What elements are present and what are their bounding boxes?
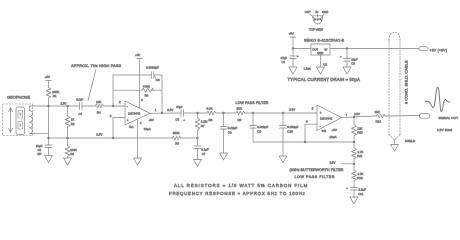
regulator gnd pin bbox=[321, 55, 328, 67]
svg-text:+: + bbox=[320, 111, 322, 115]
resistor R2 1K (geophone damping) bbox=[65, 106, 75, 138]
wire coil bottom to bypass node bbox=[30, 133, 49, 135]
battery connector bbox=[419, 47, 447, 53]
node C3 tap bbox=[346, 47, 348, 49]
svg-text:R12: R12 bbox=[357, 176, 363, 180]
resistor R9 36K bbox=[236, 107, 317, 122]
capacitor C4 0.1uF coupling bbox=[76, 97, 83, 116]
svg-text:20µA: 20µA bbox=[330, 135, 337, 139]
ground below C10 bbox=[279, 156, 287, 163]
capacitor C3 10uF bbox=[340, 49, 358, 68]
node R1 / input rail bbox=[47, 105, 49, 107]
resistor R6 680K bbox=[173, 131, 198, 145]
resistor R4 10K bbox=[82, 100, 125, 114]
geophone coil L1 bbox=[30, 111, 33, 134]
node R9 / C9 bbox=[252, 112, 254, 114]
svg-text:0.0033µF: 0.0033µF bbox=[146, 66, 159, 70]
ground below C3 bbox=[343, 67, 351, 74]
svg-text:C8: C8 bbox=[228, 131, 232, 135]
svg-text:2.5V: 2.5V bbox=[354, 112, 360, 116]
capacitor C6 0.0033uF bbox=[146, 66, 160, 82]
svg-text:R2: R2 bbox=[71, 122, 75, 126]
svg-text:GEOPHONE: GEOPHONE bbox=[7, 95, 30, 100]
svg-text:2.5V: 2.5V bbox=[61, 102, 67, 106]
svg-text:1: 1 bbox=[155, 108, 157, 112]
svg-text:+5V: +5V bbox=[332, 128, 337, 132]
ground below C7 bbox=[194, 160, 202, 167]
svg-text:+: + bbox=[340, 54, 342, 58]
shield wire to ground bbox=[395, 139, 416, 145]
resistor R12 4.7K bbox=[352, 164, 364, 188]
svg-text:-: - bbox=[127, 104, 128, 108]
svg-text:SIGNAL OUT: SIGNAL OUT bbox=[439, 116, 459, 120]
geophone magnet mass bbox=[16, 107, 25, 135]
svg-text:R4: R4 bbox=[97, 110, 101, 114]
svg-text:½B: ½B bbox=[322, 129, 327, 133]
capacitor C2 10uF NP (bias bypass) bbox=[36, 138, 52, 156]
svg-text:C3: C3 bbox=[351, 61, 355, 65]
svg-text:3.9K: 3.9K bbox=[207, 107, 213, 111]
svg-text:2.5V: 2.5V bbox=[330, 161, 336, 165]
2.5V bias rail wire bbox=[49, 137, 173, 139]
svg-text:FREQUENCY RESPONSE ≈ APPROX 5H: FREQUENCY RESPONSE ≈ APPROX 5Hz TO 100Hz bbox=[169, 191, 306, 196]
ground below pin 4 bbox=[134, 158, 142, 165]
svg-text:470K: 470K bbox=[143, 84, 150, 88]
svg-text:(30Hz BUTTERWORTH FILTER: (30Hz BUTTERWORTH FILTER bbox=[290, 168, 344, 172]
2.5V rail label bbox=[96, 133, 102, 137]
hi-pass annotation bbox=[71, 64, 122, 101]
resistor R1 200K bbox=[46, 81, 59, 139]
wire regulator in to battery connector bbox=[330, 48, 419, 50]
svg-text:1.3µA: 1.3µA bbox=[304, 66, 311, 70]
resistor R5 470K bbox=[142, 84, 154, 97]
svg-text:APPROX. 7Hz HIGH PASS: APPROX. 7Hz HIGH PASS bbox=[71, 64, 122, 68]
svg-text:R9: R9 bbox=[238, 118, 242, 122]
current drain note bbox=[288, 77, 361, 82]
resistor R11 4.7K bbox=[352, 142, 364, 164]
svg-text:LMC6442: LMC6442 bbox=[128, 111, 141, 115]
svg-text:C4: C4 bbox=[79, 112, 83, 116]
svg-text:10K: 10K bbox=[375, 110, 380, 114]
svg-text:C1: C1 bbox=[282, 60, 286, 64]
svg-text:R8: R8 bbox=[209, 118, 213, 122]
output bias label bbox=[437, 128, 452, 132]
geophone label bbox=[7, 95, 30, 100]
geophone dashed enclosure bbox=[3, 104, 33, 136]
svg-text:2.5V: 2.5V bbox=[289, 108, 295, 112]
svg-text:+5V: +5V bbox=[45, 75, 50, 79]
signal out connector bbox=[420, 114, 459, 120]
svg-text:2: 2 bbox=[119, 100, 121, 104]
svg-text:LOW PASS FILTER: LOW PASS FILTER bbox=[236, 101, 269, 105]
svg-text:ALL RESISTORS = 1/8 WATT 5% CA: ALL RESISTORS = 1/8 WATT 5% CARBON FILM bbox=[174, 183, 308, 188]
svg-text:IN: IN bbox=[325, 48, 328, 52]
node C2 / 2.5V rail bbox=[47, 137, 49, 139]
svg-text:C5: C5 bbox=[176, 118, 180, 122]
svg-text:0.1µF: 0.1µF bbox=[201, 148, 209, 152]
svg-text:LOW PASS FILTER: LOW PASS FILTER bbox=[295, 175, 336, 179]
node A label 2.5V bbox=[61, 102, 67, 106]
ground below C11 bbox=[350, 197, 358, 204]
shielded cable dashed outline bbox=[389, 33, 400, 141]
svg-text:+: + bbox=[346, 186, 348, 190]
capacitor C9 0.033uF (bootstrap) bbox=[250, 113, 355, 142]
svg-text:R3: R3 bbox=[70, 152, 74, 156]
capacitor C11 4.7uF bbox=[346, 186, 366, 197]
regulator U2 S-812C50 bbox=[311, 44, 330, 55]
svg-text:7: 7 bbox=[346, 113, 348, 117]
svg-text:NP: NP bbox=[38, 152, 42, 156]
svg-text:10K: 10K bbox=[96, 100, 101, 104]
+5V supply symbol for R1 bbox=[45, 75, 52, 81]
svg-text:C10: C10 bbox=[287, 130, 293, 134]
svg-text:+5V: +5V bbox=[289, 32, 294, 36]
resistor R7 2.2M bbox=[195, 113, 208, 138]
ground below regulator bbox=[317, 67, 325, 74]
svg-text:+9V (+9V): +9V (+9V) bbox=[430, 49, 448, 53]
svg-text:LMC6442: LMC6442 bbox=[320, 117, 333, 121]
svg-text:C7: C7 bbox=[202, 152, 206, 156]
svg-text:-: - bbox=[320, 124, 321, 128]
svg-text:+: + bbox=[297, 54, 299, 58]
svg-text:+: + bbox=[183, 118, 185, 122]
svg-text:GND: GND bbox=[322, 10, 328, 14]
svg-text:R1: R1 bbox=[53, 94, 57, 98]
ground below C1 bbox=[289, 67, 297, 74]
cable label bbox=[403, 60, 408, 104]
capacitor C8 0.22uF bbox=[220, 113, 237, 153]
butterworth annotation bbox=[290, 168, 344, 179]
svg-text:R11: R11 bbox=[357, 154, 363, 158]
svg-text:+5V: +5V bbox=[149, 118, 154, 122]
svg-text:2.5V: 2.5V bbox=[167, 108, 173, 112]
regulator quiescent label bbox=[304, 66, 311, 70]
svg-text:IN: IN bbox=[316, 10, 319, 14]
+5V supply to pin 8 bbox=[135, 53, 143, 108]
resistor R8 3.9K bbox=[198, 107, 237, 122]
bottom notes bbox=[169, 183, 308, 196]
svg-text:SHIELD: SHIELD bbox=[405, 139, 415, 143]
svg-text:36K: 36K bbox=[237, 107, 242, 111]
svg-text:+5V: +5V bbox=[135, 53, 140, 57]
svg-text:8: 8 bbox=[141, 98, 143, 102]
ground below C2 bbox=[45, 156, 53, 163]
node output divider top bbox=[353, 116, 355, 118]
svg-text:3: 3 bbox=[110, 114, 112, 118]
svg-text:U2: U2 bbox=[323, 63, 327, 67]
resistor R10 10K bbox=[352, 117, 363, 142]
svg-text:+: + bbox=[127, 118, 129, 122]
svg-text:3 COND. SHLD. CABLE: 3 COND. SHLD. CABLE bbox=[403, 60, 408, 104]
ground below shield bbox=[391, 145, 399, 152]
svg-text:2.5V BIAS: 2.5V BIAS bbox=[437, 128, 452, 132]
svg-text:2.5V: 2.5V bbox=[96, 133, 102, 137]
wire pin 6 feedback bbox=[304, 124, 317, 143]
svg-text:GND: GND bbox=[317, 51, 323, 55]
svg-text:R13: R13 bbox=[376, 119, 382, 123]
svg-text:46µA: 46µA bbox=[144, 127, 151, 131]
feedback loop wires U1A bbox=[113, 75, 162, 113]
node coil top to input rail bbox=[29, 106, 31, 111]
svg-text:SEIKO S-812C50AY-B: SEIKO S-812C50AY-B bbox=[304, 39, 345, 43]
svg-text:TOP VIEW: TOP VIEW bbox=[309, 28, 323, 32]
seismic waveform bbox=[426, 87, 451, 111]
output wire U1B bbox=[342, 112, 375, 118]
svg-text:R5: R5 bbox=[145, 93, 149, 97]
regulator part number bbox=[304, 39, 345, 43]
svg-text:C11: C11 bbox=[358, 192, 364, 196]
svg-text:C6: C6 bbox=[156, 78, 160, 82]
ground below R3 bbox=[64, 158, 72, 165]
node R2 bottom on 2.5V rail bbox=[66, 137, 68, 139]
svg-text:0.1µF: 0.1µF bbox=[76, 97, 83, 101]
svg-text:4: 4 bbox=[140, 121, 142, 125]
node C5 / R7 junction bbox=[196, 112, 198, 114]
svg-text:6: 6 bbox=[306, 120, 308, 124]
resistor R3 200K bbox=[65, 138, 77, 158]
node 2.5V divider tap bbox=[330, 161, 356, 166]
low pass filter label bbox=[236, 101, 269, 105]
svg-text:C9: C9 bbox=[257, 130, 261, 134]
node feedback divider bbox=[353, 141, 355, 143]
pin 4 wire to ground bbox=[138, 119, 142, 158]
ground below C8 bbox=[220, 153, 228, 160]
capacitor C5 47uF bbox=[176, 105, 198, 122]
geophone mass double arrow bbox=[9, 108, 13, 133]
svg-text:R10: R10 bbox=[357, 131, 363, 135]
svg-text:TYPICAL CURRENT DRAIN ≈ 50µA: TYPICAL CURRENT DRAIN ≈ 50µA bbox=[288, 77, 361, 82]
node R2 top bbox=[66, 105, 68, 107]
node feedback tap on pin2 wire bbox=[112, 105, 114, 107]
regulator package top view bbox=[305, 10, 328, 31]
svg-text:47µF: 47µF bbox=[176, 105, 183, 109]
wire regulator out bbox=[293, 48, 311, 50]
+5V symbol at regulator out bbox=[289, 32, 296, 57]
svg-text:OUT: OUT bbox=[305, 10, 311, 14]
pin5 node label bbox=[289, 108, 295, 112]
svg-text:R7: R7 bbox=[201, 124, 205, 128]
capacitor C7 0.1uF bbox=[194, 138, 209, 160]
wire pin 3 to 2.5V rail bbox=[112, 118, 125, 140]
node R8 / C8 bbox=[222, 112, 224, 114]
op-amp U1A LMC6442 bbox=[110, 100, 157, 131]
svg-text:680K: 680K bbox=[173, 131, 180, 135]
capacitor C1 47uF bbox=[281, 54, 299, 67]
node feedback / output bbox=[161, 112, 163, 114]
capacitor C10 0.033uF bbox=[280, 113, 299, 156]
op-amp U1B LMC6442 bbox=[306, 105, 348, 139]
resistor R13 10K series output bbox=[374, 110, 420, 123]
node R6 R7 C7 bbox=[196, 137, 198, 139]
svg-text:R6: R6 bbox=[175, 142, 179, 146]
output wire U1A bbox=[150, 108, 181, 113]
node C10 tap bbox=[282, 112, 284, 114]
svg-text:½A: ½A bbox=[129, 125, 134, 129]
svg-text:5: 5 bbox=[312, 106, 314, 110]
input rail wire (node A) bbox=[30, 105, 80, 107]
